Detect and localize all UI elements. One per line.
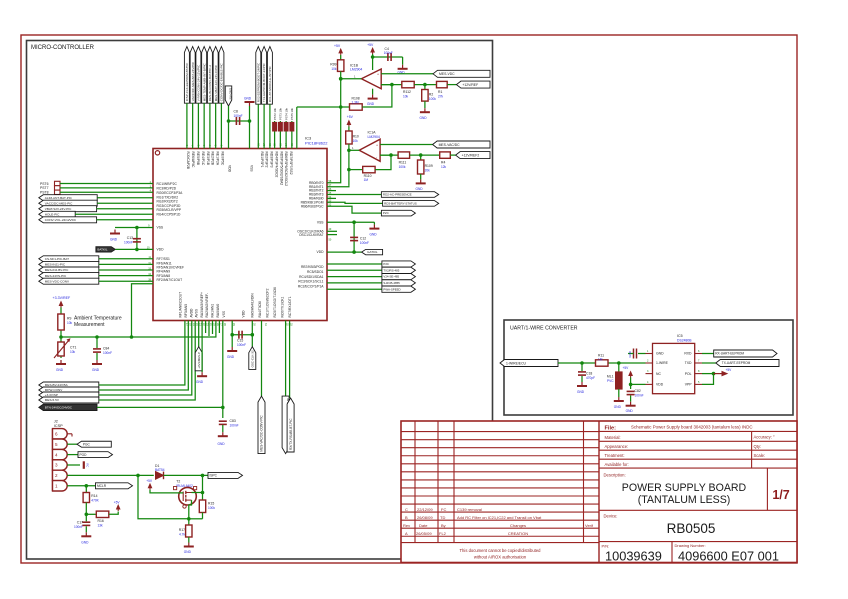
svg-text:22/12/09: 22/12/09	[417, 507, 433, 512]
svg-text:RB1/INT1: RB1/INT1	[309, 185, 324, 189]
svg-text:PGD: PGD	[80, 453, 88, 457]
svg-text:1/7: 1/7	[772, 488, 789, 502]
svg-text:MES-VAC/DC: MES-VAC/DC	[439, 143, 461, 147]
svg-text:RB4/KBI0: RB4/KBI0	[309, 197, 324, 201]
svg-text:100nF: 100nF	[124, 240, 133, 244]
svg-text:P2C: P2C	[383, 262, 389, 266]
svg-text:RD3-BATTERY-STATUS: RD3-BATTERY-STATUS	[384, 202, 417, 206]
svg-text:GND-AN: GND-AN	[229, 88, 233, 99]
svg-text:26/08/09: 26/08/09	[417, 515, 433, 520]
svg-text:RC3/RD/P2D: RC3/RD/P2D	[157, 187, 177, 191]
svg-text:MES-VBAT-12V-24V-C/PIC: MES-VBAT-12V-24V-C/PIC	[214, 64, 218, 101]
svg-text:10039639: 10039639	[605, 549, 662, 564]
svg-text:S-RCB-4855: S-RCB-4855	[383, 281, 400, 285]
svg-text:+5V: +5V	[146, 479, 153, 483]
svg-text:T2: T2	[176, 480, 180, 484]
svg-text:RC1/WR/P2C: RC1/WR/P2C	[157, 182, 178, 186]
svg-text:C15: C15	[237, 339, 243, 343]
svg-text:This document cannot be copied: This document cannot be copied/distribut…	[459, 548, 541, 553]
svg-text:MES-VDC-CONV: MES-VDC-CONV	[45, 279, 70, 283]
svg-text:GND: GND	[244, 97, 252, 101]
svg-text:IC1B: IC1B	[350, 63, 359, 67]
svg-text:R2: R2	[429, 92, 433, 96]
svg-text:12k: 12k	[441, 165, 447, 169]
svg-text:RJ0/CAP2B: RJ0/CAP2B	[186, 152, 190, 170]
svg-text:ICSP-CLK-EEPROM-BT/PIC: ICSP-CLK-EEPROM-BT/PIC	[185, 62, 189, 101]
svg-text:V-FAN-CONV-24V-12V/PIC: V-FAN-CONV-24V-12V/PIC	[197, 64, 201, 101]
svg-text:V24-SE-485: V24-SE-485	[383, 275, 399, 279]
svg-text:RC3/SCK1/SCL1: RC3/SCK1/SCL1	[298, 280, 323, 284]
svg-text:TX-UART-EEPROM: TX-UART-EEPROM	[722, 361, 751, 365]
svg-text:RB2/INT2: RB2/INT2	[309, 189, 324, 193]
svg-text:R17: R17	[179, 528, 185, 532]
svg-text:FL2: FL2	[439, 531, 447, 536]
svg-text:10k: 10k	[353, 139, 359, 143]
svg-text:IC1A: IC1A	[368, 131, 377, 135]
svg-text:MES-INJ-BV-PIC: MES-INJ-BV-PIC	[45, 268, 69, 272]
svg-text:RX/TX-RS485-BT-PIC: RX/TX-RS485-BT-PIC	[289, 418, 293, 450]
svg-text:R109: R109	[425, 164, 433, 168]
svg-text:RB5/KBI1/PGM: RB5/KBI1/PGM	[301, 200, 324, 204]
svg-text:UART/1-WIRE CONVERTER: UART/1-WIRE CONVERTER	[510, 326, 578, 332]
svg-text:Measurement: Measurement	[74, 322, 105, 328]
svg-text:+12V/REF2: +12V/REF2	[462, 153, 480, 157]
svg-text:RC5/SDO1: RC5/SDO1	[307, 270, 324, 274]
svg-text:10k: 10k	[331, 67, 337, 71]
svg-text:RA2/AN2/VREF-: RA2/AN2/VREF-	[205, 293, 209, 318]
svg-text:VSS: VSS	[250, 165, 254, 172]
svg-text:100k: 100k	[429, 97, 436, 101]
svg-text:HOLE-PIC: HOLE-PIC	[45, 212, 60, 216]
svg-text:100nF: 100nF	[384, 51, 393, 55]
svg-text:+5V: +5V	[334, 44, 341, 48]
svg-text:+: +	[376, 143, 378, 147]
svg-text:R11: R11	[598, 354, 604, 358]
svg-text:6: 6	[55, 432, 58, 437]
svg-text:NC: NC	[656, 372, 661, 376]
svg-text:R14: R14	[91, 494, 97, 498]
svg-text:RC7/RX1/DT1: RC7/RX1/DT1	[288, 296, 292, 317]
svg-text:CREATION: CREATION	[508, 531, 528, 536]
svg-text:20k: 20k	[425, 168, 431, 172]
svg-text:4096600 E07 001: 4096600 E07 001	[678, 549, 779, 564]
svg-text:GND: GND	[577, 390, 585, 394]
svg-text:DS2480B: DS2480B	[677, 338, 692, 342]
svg-text:RA4/T0CKI: RA4/T0CKI	[258, 301, 262, 318]
svg-text:1-WIRE/ECU: 1-WIRE/ECU	[506, 361, 527, 365]
svg-text:RE0/P5C: RE0/P5C	[221, 152, 225, 166]
svg-text:Material:: Material:	[605, 435, 621, 440]
svg-text:RB0/INT0: RB0/INT0	[309, 181, 324, 185]
svg-text:P2C: P2C	[383, 211, 390, 215]
svg-text:PIC18F8622: PIC18F8622	[305, 141, 328, 146]
svg-text:ISPC: ISPC	[210, 474, 218, 478]
svg-text:MES-VAC/DC-CONV-PIC: MES-VAC/DC-CONV-PIC	[260, 415, 264, 452]
svg-text:+3.3V/REF: +3.3V/REF	[53, 296, 71, 300]
svg-text:MES-TEMP-AMB-INT-B/PIC: MES-TEMP-AMB-INT-B/PIC	[202, 63, 206, 102]
svg-text:C139 removal: C139 removal	[457, 507, 482, 512]
svg-text:100nF: 100nF	[230, 424, 239, 428]
svg-text:AVDD: AVDD	[189, 308, 193, 318]
svg-text:MES-INJ1-PIC: MES-INJ1-PIC	[45, 263, 66, 267]
svg-text:Drawing Number:: Drawing Number:	[675, 543, 706, 548]
svg-text:GND: GND	[92, 368, 100, 372]
svg-text:Verif: Verif	[585, 523, 594, 528]
svg-text:C17: C17	[77, 520, 83, 524]
svg-text:VDD: VDD	[317, 250, 325, 254]
svg-text:R108: R108	[352, 96, 360, 100]
svg-text:R4: R4	[441, 161, 445, 165]
svg-text:RX-UART-EEPROM: RX-UART-EEPROM	[715, 352, 744, 356]
svg-text:MCLR: MCLR	[97, 484, 107, 488]
svg-text:PVC: PVC	[607, 379, 614, 383]
svg-text:RF7/SS1: RF7/SS1	[157, 257, 171, 261]
svg-text:1-WIRE: 1-WIRE	[656, 361, 669, 365]
svg-text:POWER SUPPLY BOARD: POWER SUPPLY BOARD	[622, 482, 747, 494]
svg-text:VSS: VSS	[222, 310, 226, 317]
svg-text:GND: GND	[227, 355, 235, 359]
svg-text:Available for:: Available for:	[605, 462, 629, 467]
svg-text:RD4/PSP4/SDO2: RD4/PSP4/SDO2	[274, 152, 278, 178]
svg-text:1.3M: 1.3M	[352, 101, 359, 105]
svg-text:RB3/INT3: RB3/INT3	[309, 193, 324, 197]
svg-text:RES-INJ-CONV-BAT/PIC-2: RES-INJ-CONV-BAT/PIC-2	[208, 65, 212, 102]
svg-text:By: By	[441, 523, 446, 528]
svg-text:1: 1	[55, 484, 58, 489]
svg-text:LM2904: LM2904	[368, 135, 380, 139]
svg-text:R1: R1	[438, 90, 442, 94]
svg-text:GND: GND	[196, 380, 204, 384]
svg-text:C4: C4	[385, 47, 389, 51]
svg-text:RX2-EEPROM-BOOT-24/PIC: RX2-EEPROM-BOOT-24/PIC	[256, 62, 260, 102]
svg-text:VSS: VSS	[317, 220, 324, 224]
svg-text:RD7/PSP7/SS2: RD7/PSP7/SS2	[289, 152, 293, 175]
svg-text:+5V: +5V	[114, 500, 121, 504]
svg-text:C12: C12	[360, 236, 366, 240]
svg-text:100nF: 100nF	[237, 343, 246, 347]
svg-text:470K: 470K	[91, 498, 99, 502]
svg-text:1M: 1M	[364, 178, 369, 182]
svg-text:VACC/DC-MES-PIC: VACC/DC-MES-PIC	[45, 201, 73, 205]
svg-text:R112: R112	[403, 90, 411, 94]
svg-text:without AIROX authorisation: without AIROX authorisation	[474, 554, 527, 559]
svg-text:100k: 100k	[399, 165, 406, 169]
svg-text:27k: 27k	[438, 95, 444, 99]
svg-text:10k: 10k	[67, 321, 73, 325]
svg-text:RD5/PSP5/SDI2/SDA2: RD5/PSP5/SDI2/SDA2	[279, 152, 283, 186]
svg-text:RD2/PSP2: RD2/PSP2	[265, 152, 269, 168]
svg-text:PGC: PGC	[83, 442, 91, 446]
svg-text:PST7: PST7	[40, 186, 49, 190]
svg-text:Changes: Changes	[510, 523, 526, 528]
svg-text:+5V: +5V	[367, 43, 374, 47]
svg-text:RB0505: RB0505	[667, 521, 716, 536]
svg-text:R111: R111	[399, 161, 407, 165]
svg-text:Description:: Description:	[604, 473, 626, 478]
svg-text:VACC/DC-MES-BAT-24V/PIC: VACC/DC-MES-BAT-24V/PIC	[191, 61, 195, 101]
svg-text:RG0/ECCP3/P3A: RG0/ECCP3/P3A	[157, 191, 184, 195]
svg-text:26/05/09: 26/05/09	[416, 531, 432, 536]
svg-text:GND: GND	[81, 541, 89, 545]
svg-text:GATKIL: GATKIL	[367, 250, 378, 254]
svg-text:RE6/AP9C: RE6/AP9C	[191, 152, 195, 169]
svg-text:CS-NF1-PIC-BAT: CS-NF1-PIC-BAT	[45, 257, 69, 261]
svg-text:J2: J2	[54, 420, 58, 424]
svg-text:A: A	[405, 531, 408, 536]
svg-text:+5V: +5V	[623, 366, 630, 370]
svg-text:R10: R10	[353, 134, 359, 138]
svg-text:RB6/KBI2/PGC: RB6/KBI2/PGC	[301, 204, 324, 208]
svg-text:Rev: Rev	[403, 523, 410, 528]
svg-text:R99: R99	[330, 62, 336, 66]
svg-text:RC2/ECCP1/P1A: RC2/ECCP1/P1A	[298, 285, 324, 289]
svg-text:BTN-24VDC/24VDC: BTN-24VDC/24VDC	[45, 406, 73, 410]
svg-text:RE3/P1B: RE3/P1B	[206, 152, 210, 166]
svg-text:TX2/RS-485: TX2/RS-485	[383, 268, 399, 272]
svg-text:Scale:: Scale:	[754, 453, 766, 458]
svg-text:BAT54: BAT54	[155, 468, 165, 472]
svg-text:B: B	[405, 515, 408, 520]
svg-text:RD3/PSP3: RD3/PSP3	[270, 152, 274, 168]
svg-text:5: 5	[55, 442, 58, 447]
svg-text:ML1: ML1	[607, 375, 614, 379]
svg-text:Add RC Filter on IC21,IC22 and: Add RC Filter on IC21,IC22 and Transil o…	[457, 515, 542, 520]
svg-text:RA1/AN1: RA1/AN1	[211, 304, 215, 318]
svg-text:BATKIL: BATKIL	[97, 248, 107, 252]
svg-text:RA5/AN4/LVDIN: RA5/AN4/LVDIN	[250, 293, 254, 318]
svg-text:RXD: RXD	[684, 352, 692, 356]
svg-text:RB7/KBI3/PGD: RB7/KBI3/PGD	[301, 265, 324, 269]
svg-text:RE4/P1C: RE4/P1C	[201, 152, 205, 166]
svg-text:4: 4	[55, 452, 58, 457]
svg-text:Date: Date	[419, 523, 428, 528]
svg-text:10k: 10k	[70, 350, 76, 354]
svg-text:+12V/REF: +12V/REF	[462, 83, 478, 87]
svg-text:C18: C18	[586, 372, 592, 376]
svg-text:RG5/MCLR/VPP: RG5/MCLR/VPP	[157, 208, 182, 212]
svg-text:R16: R16	[98, 519, 104, 523]
svg-text:VSS: VSS	[157, 226, 164, 230]
svg-text:100nF: 100nF	[103, 351, 112, 355]
svg-text:POL: POL	[685, 372, 692, 376]
svg-text:LM2904: LM2904	[350, 68, 362, 72]
svg-text:GND: GND	[656, 352, 664, 356]
svg-text:10k: 10k	[403, 95, 409, 99]
svg-text:RF0/AN5: RF0/AN5	[184, 304, 188, 318]
svg-text:2: 2	[55, 473, 58, 478]
svg-text:RF1/AN6/C2OUT: RF1/AN6/C2OUT	[179, 292, 183, 318]
svg-text:AVSS: AVSS	[195, 308, 199, 317]
svg-text:RF4/AN9: RF4/AN9	[157, 270, 171, 274]
svg-text:GND: GND	[626, 409, 634, 413]
svg-text:C83: C83	[230, 419, 236, 423]
svg-text:+5V: +5V	[726, 368, 733, 372]
svg-text:GND: GND	[416, 187, 424, 191]
svg-text:C84: C84	[103, 347, 109, 351]
svg-text:RG4/CCP5/P1D: RG4/CCP5/P1D	[157, 212, 181, 216]
svg-text:MICRO-CONTROLLER: MICRO-CONTROLLER	[31, 45, 95, 51]
svg-text:(TANTALUM LESS): (TANTALUM LESS)	[638, 494, 731, 506]
svg-text:GND: GND	[614, 405, 622, 409]
svg-text:GND: GND	[56, 368, 64, 372]
svg-text:Device:: Device:	[604, 514, 618, 519]
svg-text:RF2/AN7/C1OUT: RF2/AN7/C1OUT	[157, 278, 183, 282]
svg-text:C: C	[405, 507, 408, 512]
svg-text:13k: 13k	[98, 523, 104, 527]
svg-text:R9: R9	[67, 317, 71, 321]
svg-text:4.7k: 4.7k	[179, 532, 185, 536]
svg-text:RX1-BT-MODULE-INT/PIC: RX1-BT-MODULE-INT/PIC	[268, 65, 272, 102]
svg-text:File:: File:	[605, 425, 617, 431]
svg-text:PST6: PST6	[40, 182, 49, 186]
svg-text:GND: GND	[184, 550, 192, 554]
svg-text:VBAT/12V-24V-PIC: VBAT/12V-24V-PIC	[45, 207, 72, 211]
svg-text:IC5: IC5	[677, 334, 683, 338]
svg-text:100nF: 100nF	[74, 525, 83, 529]
svg-text:C8: C8	[234, 110, 238, 114]
svg-text:+3V3/MES-P: +3V3/MES-P	[197, 352, 201, 369]
svg-text:GND: GND	[628, 351, 632, 357]
svg-text:RC1/T1OSI/ECCP2: RC1/T1OSI/ECCP2	[265, 288, 269, 317]
svg-text:RD1/PSP1: RD1/PSP1	[260, 152, 264, 168]
svg-text:+: +	[377, 73, 379, 77]
svg-text:RG1/TXD/DK2: RG1/TXD/DK2	[157, 195, 179, 199]
svg-text:RE2/P2B: RE2/P2B	[211, 152, 215, 166]
svg-text:VDD: VDD	[242, 310, 246, 318]
svg-text:OSC1/CLKI/RA7: OSC1/CLKI/RA7	[299, 233, 324, 237]
svg-text:RF3/AN8: RF3/AN8	[157, 274, 171, 278]
svg-text:C13: C13	[127, 236, 133, 240]
svg-text:MES-24VS-PIC: MES-24VS-PIC	[45, 274, 67, 278]
svg-text:VDD: VDD	[157, 248, 165, 252]
svg-text:100nF: 100nF	[635, 394, 644, 398]
svg-text:Ambient Temperature: Ambient Temperature	[74, 316, 122, 322]
svg-text:MES-5.5V: MES-5.5V	[45, 398, 60, 402]
svg-text:VDD: VDD	[656, 383, 664, 387]
svg-text:Schematic Power Supply board 3: Schematic Power Supply board 3042003 (ta…	[631, 424, 753, 429]
svg-text:MES-VDC: MES-VDC	[439, 72, 455, 76]
svg-text:ICSP: ICSP	[54, 424, 63, 428]
svg-text:1M: 1M	[598, 358, 603, 362]
svg-text:R110: R110	[364, 174, 372, 178]
svg-text:GND: GND	[420, 116, 428, 120]
svg-text:CONV-DC/DC-ENABLE-PIC: CONV-DC/DC-ENABLE-PIC	[220, 63, 224, 102]
svg-text:RF6/AN11: RF6/AN11	[157, 261, 172, 265]
svg-text:GND: GND	[110, 238, 118, 242]
svg-text:GND: GND	[218, 442, 226, 446]
svg-text:Qty:: Qty:	[754, 444, 762, 449]
svg-text:Accuracy: °: Accuracy: °	[754, 434, 776, 439]
svg-text:TXD: TXD	[685, 361, 692, 365]
svg-text:IC3: IC3	[305, 136, 312, 141]
svg-text:OSC-CLK-32: OSC-CLK-32	[250, 350, 254, 367]
svg-text:Treatment:: Treatment:	[605, 453, 625, 458]
svg-text:ALIM-ANT-BAT-PIC: ALIM-ANT-BAT-PIC	[45, 196, 73, 200]
svg-text:PST8: PST8	[40, 191, 49, 195]
svg-text:RD6/PSP6/SCK2/SCL2: RD6/PSP6/SCK2/SCL2	[284, 152, 288, 187]
svg-text:TX2-EEPROM-BOOT-24/PIC: TX2-EEPROM-BOOT-24/PIC	[262, 62, 266, 102]
svg-text:CT1: CT1	[70, 346, 77, 350]
svg-text:470pF: 470pF	[586, 376, 595, 380]
svg-text:PWA-SPEED: PWA-SPEED	[383, 287, 400, 291]
svg-text:100nF: 100nF	[360, 241, 369, 245]
svg-text:RE5/P9B: RE5/P9B	[196, 152, 200, 166]
svg-text:R15: R15	[208, 502, 214, 506]
svg-text:RD2-AC-PRESENCE: RD2-AC-PRESENCE	[383, 193, 412, 197]
svg-text:C82: C82	[635, 389, 641, 393]
svg-text:+5V: +5V	[347, 115, 354, 119]
svg-text:TD: TD	[440, 515, 445, 520]
svg-text:3: 3	[55, 463, 58, 468]
svg-text:VDD: VDD	[228, 165, 232, 173]
svg-text:RE1/P2A: RE1/P2A	[216, 152, 220, 166]
svg-text:VPP: VPP	[685, 383, 693, 387]
svg-text:RC4/SDI1/SDA1: RC4/SDI1/SDA1	[299, 275, 324, 279]
svg-text:Appearance:: Appearance:	[605, 444, 629, 449]
svg-text:RA3/AN3/VREF+: RA3/AN3/VREF+	[200, 292, 204, 317]
svg-text:RA0/AN0: RA0/AN0	[216, 304, 220, 318]
svg-text:RF5/AN10/CVREF: RF5/AN10/CVREF	[157, 266, 184, 270]
svg-text:CONV-VOL-24/12VDC: CONV-VOL-24/12VDC	[45, 218, 77, 222]
svg-text:100k: 100k	[208, 506, 215, 510]
svg-text:100nF: 100nF	[234, 114, 243, 118]
svg-text:GND: GND	[370, 232, 378, 236]
svg-text:RG3/CCP4/P3D: RG3/CCP4/P3D	[157, 204, 181, 208]
svg-text:D1: D1	[155, 464, 159, 468]
svg-text:GND: GND	[367, 102, 375, 106]
svg-text:FC: FC	[441, 507, 446, 512]
svg-text:RC0/T1OSO/T13CKI: RC0/T1OSO/T13CKI	[273, 287, 277, 318]
svg-text:RC6/TX1/CK1: RC6/TX1/CK1	[280, 296, 284, 317]
svg-text:RG2/RX2/DT2: RG2/RX2/DT2	[157, 200, 178, 204]
